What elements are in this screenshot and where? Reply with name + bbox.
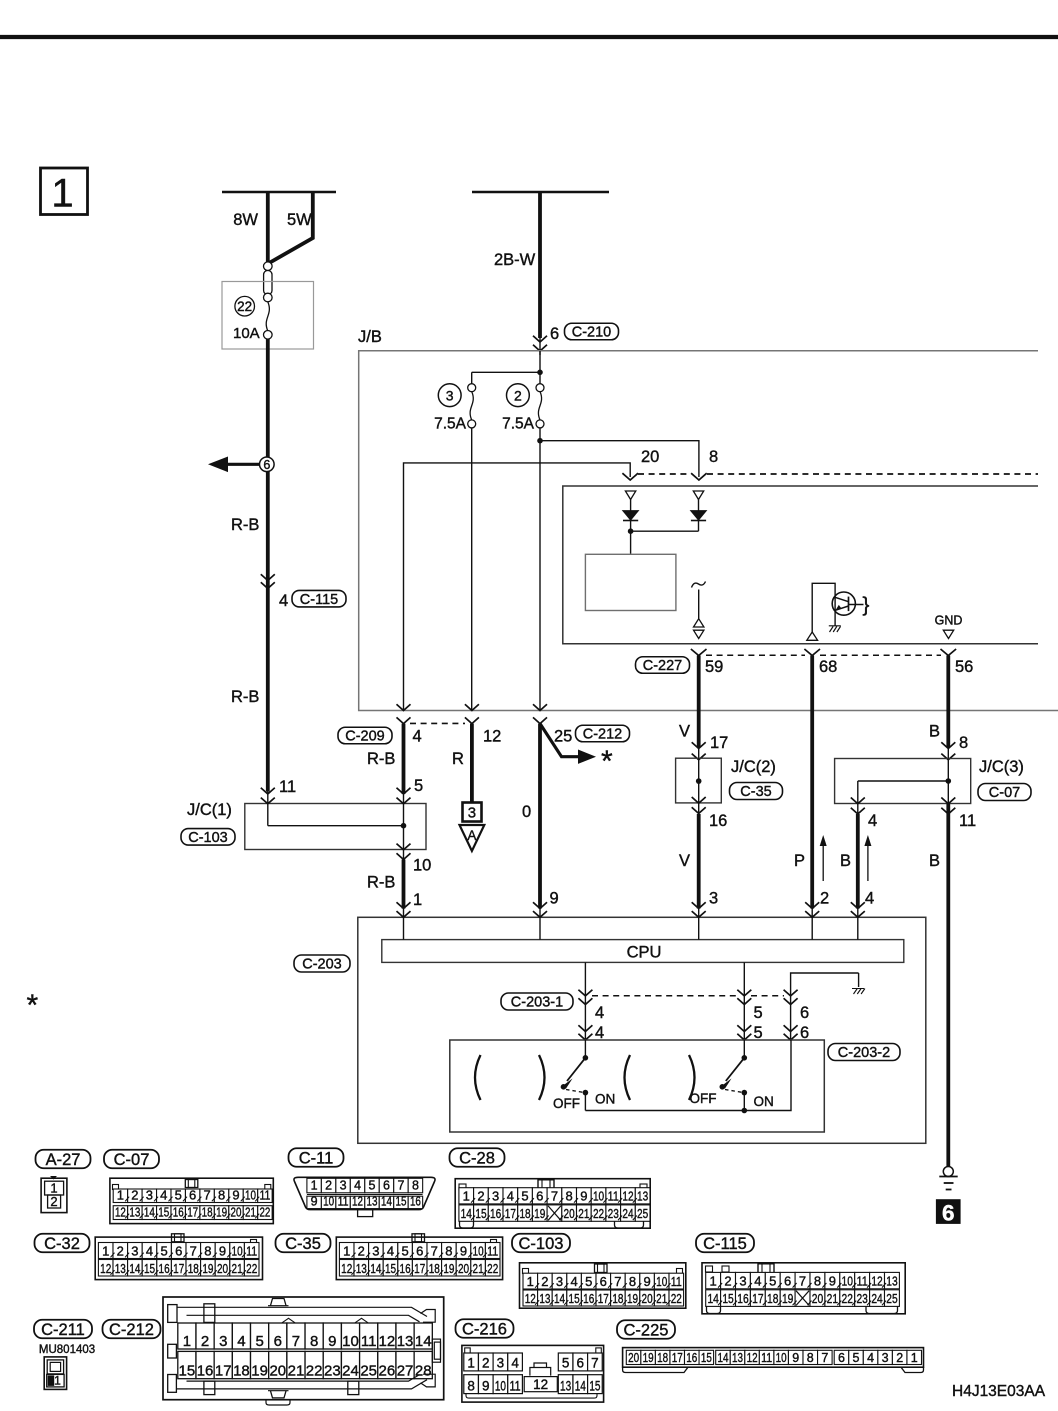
svg-text:6: 6 <box>416 1243 423 1258</box>
connector C-11 <box>294 1177 435 1216</box>
svg-text:C-216: C-216 <box>462 1320 507 1338</box>
svg-text:C-07: C-07 <box>114 1151 150 1169</box>
svg-text:6: 6 <box>577 1356 585 1371</box>
svg-text:2: 2 <box>820 890 829 908</box>
svg-text:15: 15 <box>475 1206 486 1221</box>
svg-text:C-35: C-35 <box>740 784 771 800</box>
svg-text:18: 18 <box>657 1351 668 1365</box>
svg-text:2: 2 <box>117 1243 124 1258</box>
svg-text:59: 59 <box>705 658 723 676</box>
svg-text:C-209: C-209 <box>345 729 385 745</box>
svg-text:20: 20 <box>564 1206 575 1221</box>
svg-text:MU801403: MU801403 <box>39 1344 95 1356</box>
connector A-27 <box>41 1176 67 1213</box>
switch SW2 <box>690 1040 774 1109</box>
svg-text:B: B <box>929 852 940 870</box>
svg-text:C-203: C-203 <box>302 957 342 973</box>
svg-text:16: 16 <box>400 1261 411 1276</box>
chassis ground (CPU) <box>852 989 865 995</box>
svg-text:18: 18 <box>188 1261 199 1276</box>
svg-text:C-115: C-115 <box>300 592 338 608</box>
svg-text:2: 2 <box>325 1179 332 1193</box>
connector C-07 label <box>104 1150 159 1169</box>
svg-text:1: 1 <box>467 1356 475 1371</box>
svg-text:21: 21 <box>827 1291 838 1306</box>
connector C-11 label <box>289 1148 344 1167</box>
svg-text:2: 2 <box>896 1351 903 1365</box>
svg-text:17: 17 <box>710 734 728 752</box>
svg-text:10: 10 <box>593 1189 604 1204</box>
svg-text:12: 12 <box>622 1189 633 1204</box>
svg-text:A-27: A-27 <box>46 1151 81 1169</box>
connector C-216 label <box>456 1319 514 1338</box>
svg-text:13: 13 <box>732 1351 743 1365</box>
svg-text:C-203-1: C-203-1 <box>511 995 563 1011</box>
svg-text:25: 25 <box>637 1206 648 1221</box>
connector C-32 label <box>35 1234 90 1253</box>
svg-text:5: 5 <box>521 1189 528 1204</box>
svg-text:9: 9 <box>580 1189 587 1204</box>
svg-text:15: 15 <box>589 1378 600 1393</box>
svg-text:12: 12 <box>747 1351 758 1365</box>
svg-text:12: 12 <box>352 1194 363 1208</box>
svg-text:OFF: OFF <box>553 1096 580 1111</box>
svg-text:21: 21 <box>288 1363 305 1380</box>
svg-text:15: 15 <box>701 1351 712 1365</box>
svg-text:R-B: R-B <box>367 750 395 768</box>
CPU bar <box>382 940 904 963</box>
svg-text:14: 14 <box>370 1261 381 1276</box>
svg-text:2: 2 <box>541 1274 548 1289</box>
svg-text:7.5A: 7.5A <box>434 416 467 433</box>
transistor sensor column 68 <box>807 583 870 640</box>
connector C-28 label <box>450 1148 505 1167</box>
svg-text:14: 14 <box>717 1351 728 1365</box>
svg-text:9: 9 <box>482 1378 490 1393</box>
svg-text:10: 10 <box>776 1351 787 1365</box>
svg-text:P: P <box>794 852 805 870</box>
svg-text:1: 1 <box>710 1274 717 1289</box>
connector C-212 <box>163 1297 444 1405</box>
svg-text:22: 22 <box>306 1363 323 1380</box>
svg-text:9: 9 <box>550 890 559 908</box>
branch to lamp feed 8 <box>540 441 718 480</box>
svg-text:8: 8 <box>566 1189 573 1204</box>
svg-text:7: 7 <box>204 1187 211 1202</box>
svg-text:5: 5 <box>754 1004 763 1022</box>
svg-text:20: 20 <box>231 1204 242 1219</box>
junction block J/B box <box>358 328 1058 711</box>
svg-text:C-11: C-11 <box>299 1149 334 1167</box>
svg-text:1: 1 <box>413 891 422 909</box>
svg-text:3: 3 <box>446 388 454 404</box>
connector C-211 label <box>34 1320 92 1339</box>
interior lamp module box <box>563 486 1038 644</box>
svg-text:19: 19 <box>202 1261 213 1276</box>
svg-text:11: 11 <box>246 1243 257 1258</box>
pin 25 C-212 with arrow <box>540 724 630 778</box>
svg-text:16: 16 <box>583 1291 594 1306</box>
svg-text:4: 4 <box>413 728 422 746</box>
svg-text:9: 9 <box>219 1243 226 1258</box>
svg-text:10: 10 <box>342 1333 359 1350</box>
svg-text:7: 7 <box>591 1356 599 1371</box>
svg-text:7: 7 <box>397 1179 404 1193</box>
svg-text:3: 3 <box>882 1351 889 1365</box>
svg-text:C-35: C-35 <box>285 1235 321 1253</box>
svg-text:22: 22 <box>842 1291 853 1306</box>
svg-text:J/B: J/B <box>358 328 382 346</box>
svg-text:15: 15 <box>395 1194 406 1208</box>
svg-text:14: 14 <box>129 1261 140 1276</box>
svg-text:ON: ON <box>595 1092 615 1107</box>
svg-text:V: V <box>679 852 690 870</box>
svg-text:7: 7 <box>551 1189 558 1204</box>
svg-text:C-32: C-32 <box>44 1235 80 1253</box>
svg-text:20: 20 <box>217 1261 228 1276</box>
svg-text:4: 4 <box>570 1274 577 1289</box>
svg-text:12: 12 <box>115 1204 126 1219</box>
svg-text:3: 3 <box>219 1333 227 1350</box>
svg-text:5: 5 <box>369 1179 376 1193</box>
svg-text:22: 22 <box>593 1206 604 1221</box>
svg-text:20: 20 <box>269 1363 286 1380</box>
svg-text:7: 7 <box>190 1243 197 1258</box>
svg-text:8: 8 <box>445 1243 452 1258</box>
svg-text:11: 11 <box>959 812 976 830</box>
svg-text:10: 10 <box>323 1194 334 1208</box>
svg-text:68: 68 <box>819 658 837 676</box>
svg-text:4: 4 <box>865 890 874 908</box>
svg-text:13: 13 <box>539 1291 550 1306</box>
svg-text:25: 25 <box>886 1291 897 1306</box>
svg-text:J/C(1): J/C(1) <box>187 801 232 819</box>
svg-text:22: 22 <box>259 1204 270 1219</box>
svg-text:26: 26 <box>379 1363 396 1380</box>
svg-text:5: 5 <box>414 777 423 795</box>
svg-text:6: 6 <box>838 1351 845 1365</box>
connector C-225 label <box>617 1320 675 1339</box>
svg-text:8: 8 <box>467 1378 475 1393</box>
fuse 2 7.5A <box>502 384 544 433</box>
svg-text:21: 21 <box>232 1261 243 1276</box>
svg-text:17: 17 <box>414 1261 425 1276</box>
ground G <box>939 1167 957 1190</box>
svg-text:J/C(2): J/C(2) <box>731 758 776 776</box>
svg-text:1: 1 <box>183 1333 191 1350</box>
svg-text:20: 20 <box>812 1291 823 1306</box>
svg-text:16: 16 <box>737 1291 748 1306</box>
svg-text:8: 8 <box>709 448 718 466</box>
svg-text:5: 5 <box>562 1356 570 1371</box>
svg-text:19: 19 <box>782 1291 793 1306</box>
svg-text:2: 2 <box>514 388 522 404</box>
svg-text:5: 5 <box>585 1274 592 1289</box>
junction connector J/C(1) C-103 <box>181 788 426 860</box>
svg-text:15: 15 <box>569 1291 580 1306</box>
wire B 56 to J/C3 <box>929 711 968 760</box>
ECU box C-203 <box>294 917 926 1143</box>
svg-text:CPU: CPU <box>627 944 662 962</box>
svg-text:19: 19 <box>627 1291 638 1306</box>
power bus (right) <box>472 191 609 194</box>
svg-text:C-07: C-07 <box>989 785 1020 801</box>
svg-text:9: 9 <box>232 1187 239 1202</box>
svg-text:12: 12 <box>100 1261 111 1276</box>
svg-text:24: 24 <box>622 1206 633 1221</box>
svg-text:11: 11 <box>510 1378 521 1393</box>
svg-text:10: 10 <box>842 1274 853 1289</box>
junction connector J/C(3) C-07 <box>835 758 1031 830</box>
svg-text:4: 4 <box>507 1189 514 1204</box>
svg-text:16: 16 <box>709 812 727 830</box>
branch 20 with down arrow <box>404 448 660 711</box>
svg-text:OFF: OFF <box>690 1091 717 1106</box>
wire R-B vertical <box>266 339 270 792</box>
fuse box <box>222 282 314 350</box>
svg-text:13: 13 <box>637 1189 648 1204</box>
svg-text:1: 1 <box>54 1374 61 1388</box>
svg-text:*: * <box>601 745 613 778</box>
svg-text:4: 4 <box>146 1243 153 1258</box>
svg-text:1: 1 <box>102 1243 109 1258</box>
svg-text:2: 2 <box>724 1274 731 1289</box>
svg-text:C-211: C-211 <box>41 1321 85 1339</box>
svg-text:6: 6 <box>536 1189 543 1204</box>
junction connector J/C(2) C-35 <box>676 758 783 830</box>
wire V 59 <box>697 656 701 748</box>
svg-text:18: 18 <box>202 1204 213 1219</box>
svg-text:1: 1 <box>911 1351 918 1365</box>
svg-text:12: 12 <box>379 1333 396 1350</box>
svg-text:4: 4 <box>868 812 877 830</box>
svg-text:13: 13 <box>115 1261 126 1276</box>
svg-text:1: 1 <box>311 1179 318 1193</box>
svg-text:9: 9 <box>643 1274 650 1289</box>
svg-text:11: 11 <box>608 1189 619 1204</box>
svg-text:15: 15 <box>158 1204 169 1219</box>
svg-text:5W: 5W <box>287 211 312 229</box>
svg-text:6: 6 <box>175 1243 182 1258</box>
svg-text:2: 2 <box>201 1333 209 1350</box>
connector C-209 row <box>338 704 547 745</box>
wire R pin12 <box>452 724 472 803</box>
svg-text:9: 9 <box>829 1274 836 1289</box>
svg-text:8: 8 <box>218 1187 225 1202</box>
svg-text:17: 17 <box>173 1261 184 1276</box>
svg-text:12: 12 <box>871 1274 882 1289</box>
svg-text:15: 15 <box>385 1261 396 1276</box>
wires CPU to C-203-1 <box>585 962 864 1040</box>
svg-text:V: V <box>679 723 690 741</box>
svg-text:7: 7 <box>292 1333 300 1350</box>
wire P 68 <box>810 656 814 711</box>
pin 4 C-115 <box>279 590 346 610</box>
svg-text:10: 10 <box>245 1187 256 1202</box>
connector A-27 label <box>36 1150 91 1169</box>
lamp arcs <box>475 1055 695 1100</box>
lamp output column 59 <box>692 582 706 639</box>
svg-text:17: 17 <box>598 1291 609 1306</box>
svg-text:11: 11 <box>671 1274 682 1289</box>
svg-text:13: 13 <box>560 1378 571 1393</box>
svg-text:C-227: C-227 <box>643 658 683 674</box>
svg-text:14: 14 <box>554 1291 565 1306</box>
svg-text:18: 18 <box>519 1206 530 1221</box>
svg-text:4: 4 <box>754 1274 761 1289</box>
svg-text:6: 6 <box>942 1200 955 1225</box>
svg-text:4: 4 <box>511 1356 519 1371</box>
wire R-B pin4 to J/C1 <box>367 724 423 804</box>
svg-text:11: 11 <box>856 1274 867 1289</box>
connector C-211 MU801403 <box>39 1344 95 1389</box>
svg-text:12: 12 <box>533 1377 548 1392</box>
svg-text:17: 17 <box>752 1291 763 1306</box>
svg-text:B: B <box>840 852 851 870</box>
svg-text:2B-W: 2B-W <box>494 251 536 269</box>
svg-text:4: 4 <box>595 1004 604 1022</box>
svg-text:14: 14 <box>707 1291 718 1306</box>
svg-text:7: 7 <box>431 1243 438 1258</box>
wire V to J/C2 <box>679 723 728 760</box>
svg-text:C-212: C-212 <box>583 727 623 743</box>
svg-text:5: 5 <box>401 1243 408 1258</box>
connector C-35 label <box>276 1234 331 1253</box>
svg-text:8: 8 <box>412 1179 419 1193</box>
svg-text:15: 15 <box>722 1291 733 1306</box>
svg-text:17: 17 <box>672 1351 683 1365</box>
wire B 56 <box>946 656 950 711</box>
svg-text:}: } <box>863 594 870 617</box>
svg-text:10: 10 <box>495 1378 506 1393</box>
svg-text:4: 4 <box>387 1243 394 1258</box>
svg-text:H4J13E03AA: H4J13E03AA <box>952 1383 1046 1400</box>
svg-text:10: 10 <box>232 1243 243 1258</box>
top border rule <box>0 35 1058 39</box>
chassis ground (transistor) <box>829 626 841 632</box>
connector C-07 <box>110 1178 273 1223</box>
svg-text:11: 11 <box>338 1194 349 1208</box>
svg-text:18: 18 <box>767 1291 778 1306</box>
svg-text:6: 6 <box>189 1187 196 1202</box>
svg-text:8: 8 <box>959 734 968 752</box>
connector C-216 <box>462 1345 604 1402</box>
GND column 56 <box>935 614 963 639</box>
svg-text:13: 13 <box>367 1194 378 1208</box>
svg-text:25: 25 <box>554 728 572 746</box>
svg-text:13: 13 <box>397 1333 414 1350</box>
svg-text:27: 27 <box>397 1363 414 1380</box>
svg-text:15: 15 <box>144 1261 155 1276</box>
switch SW1 <box>553 1040 615 1111</box>
connector C-203-1 row <box>501 990 809 1022</box>
svg-text:2: 2 <box>477 1189 484 1204</box>
svg-text:9: 9 <box>311 1194 318 1208</box>
svg-text:C-115: C-115 <box>703 1235 747 1253</box>
svg-text:21: 21 <box>656 1291 667 1306</box>
svg-text:4: 4 <box>279 592 288 610</box>
svg-text:0: 0 <box>522 803 531 821</box>
diode D1 <box>623 491 638 554</box>
connector C-227 row <box>636 649 974 676</box>
svg-text:6: 6 <box>800 1004 809 1022</box>
svg-text:28: 28 <box>415 1363 432 1380</box>
svg-text:21: 21 <box>245 1204 256 1219</box>
svg-text:19: 19 <box>534 1206 545 1221</box>
svg-text:16: 16 <box>410 1194 421 1208</box>
connector C-28 <box>455 1179 650 1229</box>
connector C-32 <box>95 1234 262 1280</box>
fuse 22 10A <box>233 296 272 342</box>
svg-text:5: 5 <box>853 1351 860 1365</box>
svg-text:2: 2 <box>482 1356 490 1371</box>
svg-text:16: 16 <box>490 1206 501 1221</box>
svg-text:6: 6 <box>274 1333 282 1350</box>
svg-text:22: 22 <box>246 1261 257 1276</box>
svg-text:16: 16 <box>159 1261 170 1276</box>
wire 8W <box>233 192 268 263</box>
svg-text:1: 1 <box>527 1274 534 1289</box>
svg-text:13: 13 <box>886 1274 897 1289</box>
CPU input chevrons <box>397 902 865 939</box>
svg-text:8: 8 <box>629 1274 636 1289</box>
svg-text:12: 12 <box>341 1261 352 1276</box>
svg-text:1: 1 <box>343 1243 350 1258</box>
connector C-115 <box>702 1263 905 1314</box>
wire fuse2 down to pin 25 <box>537 428 543 711</box>
svg-text:18: 18 <box>233 1363 250 1380</box>
wire from C-210 pin to fuses <box>472 351 543 387</box>
svg-text:C-103: C-103 <box>519 1235 564 1253</box>
wire 5W <box>270 192 313 263</box>
connector C-103 <box>520 1263 686 1308</box>
wire P to CPU pin2 <box>794 711 829 918</box>
svg-text:8: 8 <box>814 1274 821 1289</box>
svg-text:3: 3 <box>556 1274 563 1289</box>
svg-text:A: A <box>467 828 476 843</box>
svg-text:8: 8 <box>310 1333 318 1350</box>
connector C-115 label <box>696 1234 754 1253</box>
connector 6 C-210 <box>533 323 619 351</box>
connector C-203-2 chevrons <box>578 1024 900 1061</box>
svg-text:25: 25 <box>360 1363 377 1380</box>
svg-text:20: 20 <box>628 1351 639 1365</box>
svg-text:17: 17 <box>187 1204 198 1219</box>
svg-text:1: 1 <box>463 1189 470 1204</box>
svg-text:14: 14 <box>415 1333 432 1350</box>
svg-text:11: 11 <box>279 778 296 796</box>
connector C-212 label <box>103 1320 161 1339</box>
svg-text:2: 2 <box>358 1243 365 1258</box>
svg-text:5: 5 <box>175 1187 182 1202</box>
svg-text:9: 9 <box>792 1351 799 1365</box>
svg-text:9: 9 <box>460 1243 467 1258</box>
svg-text:10: 10 <box>473 1243 484 1258</box>
connector C-103 label <box>512 1234 570 1253</box>
svg-text:16: 16 <box>173 1204 184 1219</box>
svg-text:R-B: R-B <box>231 688 259 706</box>
page chevrons on R-B <box>261 574 275 580</box>
svg-text:C-203-2: C-203-2 <box>838 1045 890 1061</box>
svg-text:3: 3 <box>372 1243 379 1258</box>
svg-text:18: 18 <box>612 1291 623 1306</box>
svg-text:J/C(3): J/C(3) <box>979 758 1024 776</box>
svg-text:11: 11 <box>361 1333 377 1350</box>
svg-text:3: 3 <box>709 890 718 908</box>
svg-text:22: 22 <box>237 299 252 314</box>
svg-text:23: 23 <box>608 1206 619 1221</box>
svg-text:19: 19 <box>643 1351 654 1365</box>
